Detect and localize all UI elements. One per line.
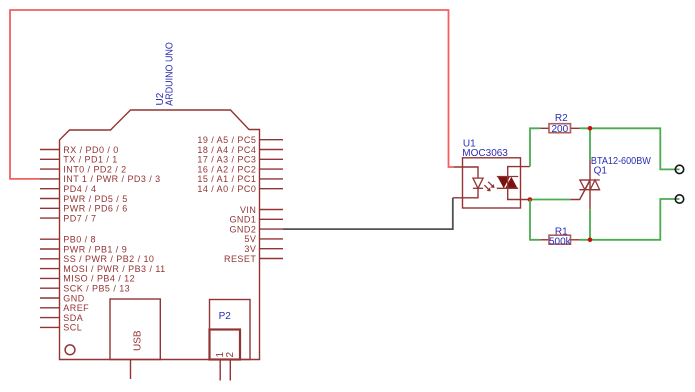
wire green: bottom node to bottom-right terminal [580, 199, 680, 240]
optocoupler U1 MOC3063 body [463, 158, 521, 208]
pin 19 / A5 / PC5 [197, 135, 283, 145]
pin PWR / PD6 / 6 [40, 204, 128, 214]
pin TX / PD1 / 1 [40, 155, 118, 165]
pin AREF [40, 303, 89, 313]
pin RESET [224, 254, 283, 264]
U1 LED cathode bar [473, 187, 483, 189]
svg-text:PD4 / 4: PD4 / 4 [63, 184, 96, 194]
pin GND [40, 293, 85, 303]
pin 14 / A0 / PC0 [197, 184, 283, 194]
svg-text:PWR / PD6 / 6: PWR / PD6 / 6 [63, 204, 127, 214]
IC U2 Arduino UNO body outline [60, 110, 260, 360]
svg-text:RX / PD0 / 0: RX / PD0 / 0 [63, 145, 118, 155]
svg-text:3V: 3V [244, 244, 256, 254]
svg-text:5V: 5V [244, 234, 256, 244]
triac Q1 symbol [579, 180, 599, 190]
svg-text:ARDUINO UNO: ARDUINO UNO [164, 42, 175, 106]
svg-text:GND1: GND1 [229, 215, 256, 225]
U1 emission arrow 1 [488, 182, 494, 188]
svg-text:RESET: RESET [224, 254, 256, 264]
svg-text:SDA: SDA [63, 313, 83, 323]
svg-text:16 / A2 / PC2: 16 / A2 / PC2 [197, 164, 256, 174]
svg-text:TX / PD1 / 1: TX / PD1 / 1 [63, 155, 117, 165]
triac Q1 MT2 pin and center line [589, 161, 591, 190]
svg-text:GND2: GND2 [229, 224, 256, 234]
svg-text:VIN: VIN [240, 205, 256, 215]
svg-text:SCK / PB5 / 13: SCK / PB5 / 13 [63, 283, 130, 293]
svg-text:MOSI / PWR / PB3 / 11: MOSI / PWR / PB3 / 11 [63, 264, 165, 274]
U1 pin 2 cathode lead [453, 188, 478, 198]
svg-text:200: 200 [551, 124, 568, 135]
pin PWR / PB1 / 9 [40, 244, 127, 254]
pin MOSI / PWR / PB3 / 11 [40, 264, 166, 274]
svg-text:PD7 / 7: PD7 / 7 [63, 213, 96, 223]
junction bottom node [588, 238, 593, 243]
svg-text:19 / A5 / PC5: 19 / A5 / PC5 [197, 135, 256, 145]
pin SDA [40, 313, 83, 323]
svg-text:500k: 500k [549, 237, 572, 248]
svg-text:15 / A1 / PC1: 15 / A1 / PC1 [197, 174, 256, 184]
svg-text:USB: USB [133, 330, 144, 351]
U1 emission arrow 2 [484, 185, 490, 191]
triac Q1 gate lead [570, 181, 590, 200]
P2 pin 2 [225, 352, 236, 381]
wire green: U1 pin6 up to top node [530, 128, 540, 166]
pin PB0 / 8 [40, 234, 96, 244]
svg-text:2: 2 [225, 352, 236, 358]
pin INT0 / PD2 / 2 [40, 164, 127, 174]
pin PD4 / 4 [40, 184, 96, 194]
wire green: U1 pin4 to Q1 gate [530, 199, 571, 201]
mounting hole circle [65, 345, 75, 355]
wire net D3: Arduino INT1/PD3 pin to U1 anode (light red) [10, 10, 454, 179]
pin SCK / PB5 / 13 [40, 283, 130, 293]
svg-text:P2: P2 [219, 311, 232, 322]
resistor R1 body [549, 235, 571, 244]
pin INT 1 / PWR / PD3 / 3 [40, 174, 161, 184]
U1 pin 6 lead (top right) [508, 167, 530, 177]
svg-text:INT0 / PD2 / 2: INT0 / PD2 / 2 [63, 164, 126, 174]
pin 5V [244, 234, 283, 244]
pin VIN [240, 205, 283, 215]
svg-text:SS / PWR / PB2 / 10: SS / PWR / PB2 / 10 [63, 254, 154, 264]
U1 internal triac filled triangles [498, 177, 518, 189]
svg-text:17 / A3 / PC3: 17 / A3 / PC3 [197, 155, 256, 165]
pin RX / PD0 / 0 [40, 145, 119, 155]
svg-text:INT 1 / PWR / PD3 / 3: INT 1 / PWR / PD3 / 3 [63, 174, 160, 184]
junction top node [588, 126, 593, 131]
U1 pin 1 anode lead [454, 167, 478, 178]
pin PD7 / 7 [40, 213, 96, 223]
svg-text:14 / A0 / PC0: 14 / A0 / PC0 [197, 184, 256, 194]
wire green: top node down to Q1 MT2 [589, 128, 591, 160]
svg-text:PB0 / 8: PB0 / 8 [63, 234, 96, 244]
P2 pin 1 [215, 352, 226, 381]
wire net GND: Arduino GND2 pin to U1 cathode (dark gray) [283, 198, 453, 229]
svg-text:PWR / PD5 / 5: PWR / PD5 / 5 [63, 194, 127, 204]
resistor R2 leads [540, 127, 580, 129]
U1 pin 4 lead (bottom right) [508, 188, 530, 199]
pin SCL [40, 323, 82, 333]
U1 internal triac vertical [507, 177, 509, 189]
wire green: U1 pin4 node down to bottom node [530, 200, 540, 240]
pin 15 / A1 / PC1 [197, 174, 283, 184]
pin GND2 [229, 224, 283, 234]
svg-text:PWR / PB1 / 9: PWR / PB1 / 9 [63, 244, 127, 254]
U1 internal triac bars [497, 177, 518, 189]
svg-text:18 / A4 / PC4: 18 / A4 / PC4 [197, 145, 256, 155]
svg-text:AREF: AREF [63, 303, 89, 313]
USB connector block [110, 299, 160, 379]
pin SS / PWR / PB2 / 10 [40, 254, 154, 264]
pin 16 / A2 / PC2 [197, 164, 283, 174]
junction U1 pin4 node [528, 197, 533, 202]
svg-text:MOC3063: MOC3063 [462, 148, 508, 159]
U1 LED triangle [473, 178, 483, 188]
svg-text:SCL: SCL [63, 323, 82, 333]
triac Q1 MT1 pin [589, 190, 591, 210]
resistor R2 body [549, 124, 571, 133]
svg-text:MISO / PB4 / 12: MISO / PB4 / 12 [63, 274, 135, 284]
pin 17 / A3 / PC3 [197, 155, 283, 165]
svg-text:GND: GND [63, 293, 84, 303]
P2 pin block [210, 330, 241, 360]
pin 18 / A4 / PC4 [197, 145, 283, 155]
svg-text:R2: R2 [555, 113, 568, 124]
resistor R1 leads [540, 239, 580, 241]
pin 3V [244, 244, 283, 254]
pin GND1 [229, 215, 283, 225]
terminal bottom (AC out 2) [675, 195, 683, 203]
terminal top (AC out 1) [675, 165, 683, 173]
svg-text:Q1: Q1 [594, 166, 608, 177]
pin MISO / PB4 / 12 [40, 274, 135, 284]
wire green: R2 to top-right terminal [580, 128, 680, 169]
connector P2 outer box [210, 300, 251, 360]
pin PWR / PD5 / 5 [40, 194, 128, 204]
wire green: Q1 MT1 down to bottom node [589, 209, 591, 240]
